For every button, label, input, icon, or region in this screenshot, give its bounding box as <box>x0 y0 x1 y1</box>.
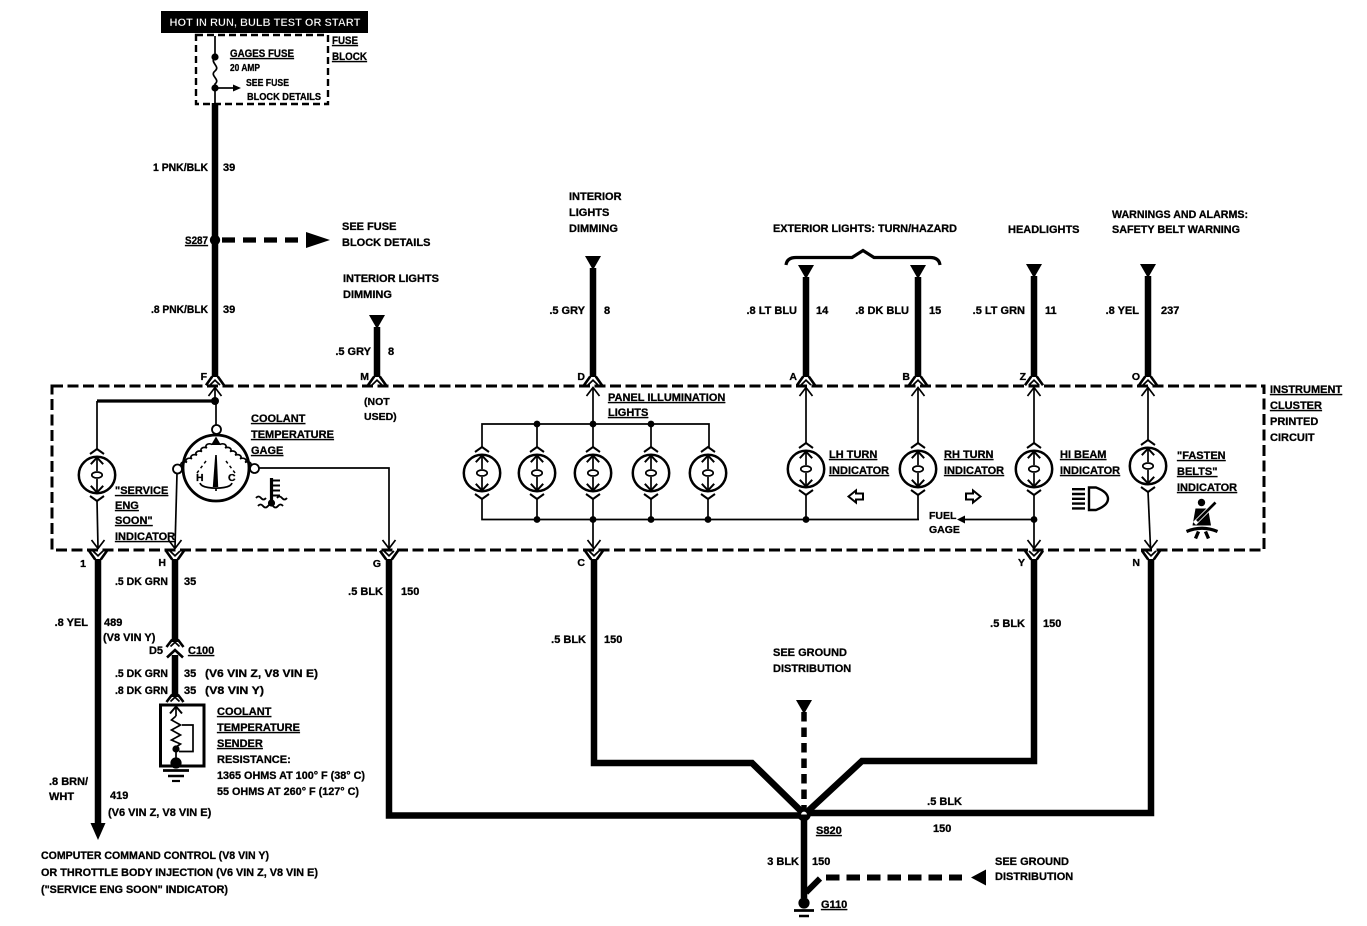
svg-text:DIMMING: DIMMING <box>569 223 618 235</box>
svg-text:.8 DK BLU: .8 DK BLU <box>855 305 909 317</box>
svg-text:LIGHTS: LIGHTS <box>608 407 648 419</box>
node bottom bus 3 <box>590 516 597 523</box>
svg-text:C: C <box>577 557 585 569</box>
node top bus 2 <box>534 421 541 428</box>
dashed branch to ground distribution (lower) <box>806 879 820 893</box>
wire gauge right terminal to terminal G <box>259 468 389 548</box>
instrument cluster printed circuit dashed box <box>52 386 1264 550</box>
splice S820 <box>797 808 811 822</box>
panel illumination lamp 2 <box>519 447 555 499</box>
feed arrow M interior lights dimming <box>369 315 385 329</box>
svg-text:BELTS": BELTS" <box>1177 466 1217 478</box>
svg-text:SEE FUSE: SEE FUSE <box>246 77 289 89</box>
lamp HI beam indicator <box>1016 443 1052 495</box>
wire Z to HI beam lamp <box>1033 388 1035 444</box>
svg-text:.5 BLK: .5 BLK <box>551 634 586 646</box>
svg-text:.8 YEL: .8 YEL <box>1106 305 1140 317</box>
svg-text:HEADLIGHTS: HEADLIGHTS <box>1008 224 1080 236</box>
svg-text:SOON": SOON" <box>115 515 153 527</box>
wire terminal Y down .5 BLK 150 <box>806 559 1034 813</box>
ground symbol G110 <box>794 909 814 912</box>
svg-text:("SERVICE ENG SOON" INDICATOR): ("SERVICE ENG SOON" INDICATOR) <box>41 884 228 896</box>
wire B to RH lamp <box>917 388 919 444</box>
svg-text:HOT IN RUN, BULB TEST OR START: HOT IN RUN, BULB TEST OR START <box>170 17 361 29</box>
node Y junction <box>1031 516 1038 523</box>
svg-text:INDICATOR: INDICATOR <box>1177 482 1237 494</box>
svg-text:H: H <box>158 557 166 569</box>
power banner HOT IN RUN, BULB TEST OR START <box>161 11 368 33</box>
panel illumination lamp 1 <box>464 447 500 499</box>
wire terminal H down .5 DK GRN 35 <box>172 559 179 642</box>
lamp RH turn indicator <box>900 443 936 495</box>
svg-text:.5 BLK: .5 BLK <box>348 586 383 598</box>
svg-text:HI BEAM: HI BEAM <box>1060 449 1106 461</box>
svg-text:INTERIOR LIGHTS: INTERIOR LIGHTS <box>343 273 439 285</box>
svg-text:OR THROTTLE BODY INJECTION (V6: OR THROTTLE BODY INJECTION (V6 VIN Z, V8… <box>41 867 318 879</box>
panel lamps top bus <box>482 424 709 448</box>
svg-text:SEE GROUND: SEE GROUND <box>995 856 1069 868</box>
svg-text:DISTRIBUTION: DISTRIBUTION <box>995 871 1073 883</box>
svg-text:.5 GRY: .5 GRY <box>335 346 371 358</box>
svg-text:150: 150 <box>812 856 830 868</box>
svg-text:"FASTEN: "FASTEN <box>1177 450 1226 462</box>
svg-text:.8 YEL: .8 YEL <box>55 617 89 629</box>
feed arrow Z <box>1026 264 1042 278</box>
feed arrow B <box>910 265 926 279</box>
svg-text:150: 150 <box>401 586 419 598</box>
wire terminal N down .5 BLK 150 <box>810 559 1151 813</box>
svg-text:35: 35 <box>184 685 196 697</box>
terminal A <box>797 377 815 397</box>
wire S820 to G110 3 BLK 150 <box>801 815 808 899</box>
wire service lamp to terminal 1 <box>97 501 98 548</box>
svg-text:.5 LT GRN: .5 LT GRN <box>973 305 1025 317</box>
svg-text:LIGHTS: LIGHTS <box>569 207 609 219</box>
svg-text:(V6 VIN Z, V8 VIN E): (V6 VIN Z, V8 VIN E) <box>205 668 318 680</box>
arrow see fuse block details (inside fuse box) <box>217 87 233 89</box>
wire fasten lamp to N <box>1148 492 1151 548</box>
svg-text:8: 8 <box>604 305 610 317</box>
svg-text:11: 11 <box>1045 305 1057 317</box>
svg-text:150: 150 <box>1043 618 1061 630</box>
svg-text:INDICATOR: INDICATOR <box>115 531 175 543</box>
svg-text:489: 489 <box>104 617 122 629</box>
wire .8 PNK/BLK 39 <box>212 240 219 377</box>
coolant temperature sender box <box>161 705 205 766</box>
wire terminal G down .5 BLK 150 <box>389 559 800 816</box>
ground G110 <box>798 897 809 908</box>
terminal Y <box>1025 540 1043 560</box>
node under F <box>211 397 219 405</box>
connector C100 D5 <box>167 640 184 658</box>
svg-text:B: B <box>902 371 910 383</box>
wire A to LH lamp <box>805 388 807 444</box>
svg-text:SEE FUSE: SEE FUSE <box>342 221 396 233</box>
sender ground node <box>170 757 181 768</box>
wire drops to lamps <box>537 424 651 448</box>
icon coolant thermometer <box>256 478 287 508</box>
wire F arrow to junction <box>214 388 216 401</box>
wire junction to gauge top <box>215 401 217 425</box>
wire RH lamp to bus <box>917 495 919 520</box>
svg-text:35: 35 <box>184 576 196 588</box>
svg-text:55 OHMS AT 260° F (127° C): 55 OHMS AT 260° F (127° C) <box>217 786 359 798</box>
svg-text:USED): USED) <box>364 411 397 423</box>
svg-text:SENDER: SENDER <box>217 738 263 750</box>
svg-text:15: 15 <box>929 305 941 317</box>
svg-text:.5 DK GRN: .5 DK GRN <box>115 668 168 680</box>
coolant temperature gage <box>173 425 259 501</box>
terminal M (not used) <box>368 377 386 386</box>
svg-text:.5 GRY: .5 GRY <box>549 305 585 317</box>
svg-text:.5 BLK: .5 BLK <box>990 618 1025 630</box>
svg-text:S287: S287 <box>185 235 208 247</box>
terminal O <box>1139 377 1157 397</box>
svg-text:WHT: WHT <box>49 791 74 803</box>
wire 1 PNK/BLK 39 <box>212 103 219 240</box>
dashed arrow to see fuse block details <box>222 237 306 242</box>
terminal C <box>585 540 603 560</box>
svg-text:.8 PNK/BLK: .8 PNK/BLK <box>151 304 208 316</box>
svg-text:H: H <box>196 472 204 484</box>
lamp fasten belts indicator <box>1130 440 1166 492</box>
panel lamps bottom bus <box>482 499 919 520</box>
svg-text:.5 DK GRN: .5 DK GRN <box>115 576 168 588</box>
wire to sender ground <box>175 749 177 762</box>
svg-text:(V8 VIN Y): (V8 VIN Y) <box>205 685 264 697</box>
wire C100 to sender .5/.8 DK GRN 35 <box>172 655 179 697</box>
svg-text:(V8 VIN Y): (V8 VIN Y) <box>103 632 156 644</box>
svg-text:.8 BRN/: .8 BRN/ <box>49 776 88 788</box>
svg-text:INTERIOR: INTERIOR <box>569 191 622 203</box>
feed arrow A <box>798 265 814 279</box>
svg-text:35: 35 <box>184 668 196 680</box>
node bottom bus 5 <box>705 516 712 523</box>
icon fasten seat belt <box>1187 499 1218 539</box>
svg-text:WARNINGS AND ALARMS:: WARNINGS AND ALARMS: <box>1112 209 1248 221</box>
svg-text:LH TURN: LH TURN <box>829 449 877 461</box>
svg-text:419: 419 <box>110 790 128 802</box>
svg-text:.5 BLK: .5 BLK <box>927 796 962 808</box>
svg-text:D5: D5 <box>149 645 163 657</box>
svg-text:BLOCK DETAILS: BLOCK DETAILS <box>247 91 321 103</box>
svg-text:.8 LT BLU: .8 LT BLU <box>746 305 797 317</box>
wire HI beam lamp to Y <box>1033 495 1035 548</box>
svg-text:S820: S820 <box>816 825 842 837</box>
svg-text:GAGE: GAGE <box>929 524 960 536</box>
svg-text:DIMMING: DIMMING <box>343 289 392 301</box>
svg-text:3 BLK: 3 BLK <box>767 856 799 868</box>
svg-text:COOLANT: COOLANT <box>217 706 272 718</box>
icon left arrow <box>849 491 864 503</box>
svg-text:TEMPERATURE: TEMPERATURE <box>217 722 300 734</box>
wire down to service lamp <box>96 401 98 450</box>
wire fuse to box bottom <box>214 88 216 103</box>
wire junction to service lamp branch <box>97 399 215 402</box>
svg-text:INDICATOR: INDICATOR <box>944 465 1004 477</box>
panel illumination lamp 5 <box>690 447 726 499</box>
svg-text:DISTRIBUTION: DISTRIBUTION <box>773 663 851 675</box>
svg-text:150: 150 <box>604 634 622 646</box>
svg-text:RH TURN: RH TURN <box>944 449 994 461</box>
svg-text:GAGES FUSE: GAGES FUSE <box>230 48 294 60</box>
svg-text:O: O <box>1132 371 1140 383</box>
node bottom bus 4 <box>648 516 655 523</box>
svg-text:RESISTANCE:: RESISTANCE: <box>217 754 291 766</box>
svg-text:N: N <box>1132 557 1140 569</box>
svg-text:BLOCK DETAILS: BLOCK DETAILS <box>342 237 430 249</box>
svg-text:Y: Y <box>1018 557 1025 569</box>
panel illumination lamp 3 <box>575 447 611 499</box>
fuse element GAGES FUSE 20 AMP <box>213 57 216 87</box>
svg-text:TEMPERATURE: TEMPERATURE <box>251 429 334 441</box>
svg-text:(NOT: (NOT <box>364 396 390 408</box>
svg-text:CIRCUIT: CIRCUIT <box>1270 432 1315 444</box>
wire LH lamp to bus <box>805 495 807 520</box>
svg-text:Z: Z <box>1020 371 1027 383</box>
terminal Z <box>1025 377 1043 397</box>
svg-text:1365 OHMS AT 100° F (38° C): 1365 OHMS AT 100° F (38° C) <box>217 770 365 782</box>
feed arrow D <box>585 256 601 270</box>
wire to fuel gage with arrow <box>963 519 1034 521</box>
connector flare at sender <box>167 695 184 703</box>
wire .8 DK BLU 15 to B <box>915 277 922 377</box>
svg-text:20 AMP: 20 AMP <box>230 62 260 74</box>
wire .8 YEL 237 to O <box>1145 276 1152 377</box>
terminal G <box>380 540 398 560</box>
sender variable resistor <box>172 716 181 749</box>
dashed feed from ground distribution <box>796 700 812 714</box>
node top bus D <box>590 421 597 428</box>
svg-text:EXTERIOR LIGHTS: TURN/HAZARD: EXTERIOR LIGHTS: TURN/HAZARD <box>773 223 957 235</box>
fuse block dashed box <box>196 35 328 104</box>
svg-text:237: 237 <box>1161 305 1179 317</box>
svg-text:PRINTED: PRINTED <box>1270 416 1318 428</box>
svg-text:(V6 VIN Z, V8 VIN E): (V6 VIN Z, V8 VIN E) <box>108 807 212 819</box>
svg-text:D: D <box>577 371 585 383</box>
svg-text:M: M <box>360 371 369 383</box>
terminal N <box>1142 540 1160 560</box>
ground symbol sender <box>163 769 189 772</box>
wire O to fasten lamp <box>1147 388 1149 441</box>
svg-text:39: 39 <box>223 304 235 316</box>
terminal D <box>584 377 602 397</box>
wire gauge left terminal to terminal H <box>175 474 177 548</box>
svg-text:BLOCK: BLOCK <box>332 51 367 63</box>
node fuse bottom <box>211 84 218 91</box>
wire D arrow to panel bus <box>592 388 594 424</box>
svg-text:FUEL: FUEL <box>929 510 957 522</box>
svg-text:14: 14 <box>816 305 829 317</box>
svg-text:INDICATOR: INDICATOR <box>829 465 889 477</box>
svg-text:150: 150 <box>933 823 951 835</box>
svg-text:SAFETY BELT WARNING: SAFETY BELT WARNING <box>1112 224 1240 236</box>
svg-text:GAGE: GAGE <box>251 445 283 457</box>
lamp LH turn indicator <box>788 443 824 495</box>
node bottom bus 2 <box>534 516 541 523</box>
feed arrow O <box>1140 264 1156 278</box>
node top bus 4 <box>648 421 655 428</box>
wire .5 GRY 8 to D <box>590 268 597 377</box>
node sender tap <box>172 745 179 752</box>
terminal 1 <box>89 540 107 560</box>
icon headlight hi beam <box>1072 488 1108 511</box>
splice S287 <box>210 235 220 245</box>
wire .5 LT GRN 11 to Z <box>1031 276 1038 377</box>
svg-text:39: 39 <box>223 162 235 174</box>
svg-text:"SERVICE: "SERVICE <box>115 485 168 497</box>
terminal H <box>166 540 184 560</box>
svg-text:INDICATOR: INDICATOR <box>1060 465 1120 477</box>
svg-text:ENG: ENG <box>115 500 139 512</box>
terminal B <box>909 377 927 397</box>
svg-text:PANEL ILLUMINATION: PANEL ILLUMINATION <box>608 392 725 404</box>
sender input arrow <box>170 707 182 714</box>
node fuse top <box>211 53 218 60</box>
svg-text:1: 1 <box>80 558 86 570</box>
wire .8 LT BLU 14 to A <box>803 277 810 377</box>
wire .5 GRY 8 to M <box>374 327 381 377</box>
svg-text:C100: C100 <box>188 645 214 657</box>
wire terminal 1 down .8 YEL 489 <box>95 559 102 824</box>
svg-text:FUSE: FUSE <box>332 35 358 47</box>
lamp service eng soon indicator <box>79 449 115 501</box>
terminal F <box>206 377 224 397</box>
panel illumination lamp 4 <box>633 447 669 499</box>
wire into fuse <box>214 36 216 57</box>
node LH bus <box>803 516 810 523</box>
brace over A B <box>786 251 940 266</box>
svg-text:CLUSTER: CLUSTER <box>1270 400 1322 412</box>
svg-text:1 PNK/BLK: 1 PNK/BLK <box>153 162 208 174</box>
svg-text:G: G <box>373 558 381 570</box>
icon right arrow <box>966 491 981 503</box>
svg-text:A: A <box>789 371 797 383</box>
svg-text:INSTRUMENT: INSTRUMENT <box>1270 384 1342 396</box>
svg-text:G110: G110 <box>821 899 847 911</box>
svg-text:COOLANT: COOLANT <box>251 413 306 425</box>
svg-text:SEE GROUND: SEE GROUND <box>773 647 847 659</box>
wire bus to terminal C <box>592 520 594 548</box>
svg-text:F: F <box>201 371 208 383</box>
wire terminal C down .5 BLK 150 <box>594 559 803 813</box>
svg-text:C: C <box>228 472 236 484</box>
svg-text:8: 8 <box>388 346 394 358</box>
svg-text:COMPUTER COMMAND CONTROL (V8 V: COMPUTER COMMAND CONTROL (V8 VIN Y) <box>41 850 269 862</box>
svg-text:.8 DK GRN: .8 DK GRN <box>115 685 168 697</box>
